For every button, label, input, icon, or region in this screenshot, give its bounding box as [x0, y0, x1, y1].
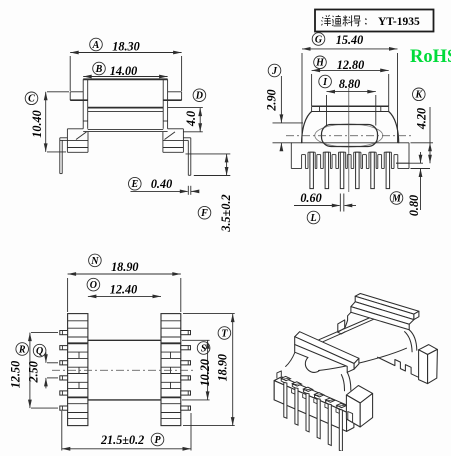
svg-text:14.00: 14.00	[110, 64, 137, 78]
dim C 10.40	[25, 92, 69, 152]
svg-text:4.0: 4.0	[184, 111, 198, 127]
front view: bobbin outline	[67, 79, 183, 152]
char 洋	[321, 17, 323, 25]
svg-text:0.40: 0.40	[151, 177, 172, 191]
svg-text:18.30: 18.30	[112, 40, 139, 54]
svg-text:2.50: 2.50	[27, 361, 41, 383]
dim T 18.90	[183, 314, 235, 426]
svg-text:RoHS: RoHS	[410, 47, 451, 67]
side view: bobbin flange profile	[302, 106, 399, 142]
title box	[315, 10, 434, 32]
fullwidth colon	[365, 19, 366, 25]
dim I 8.80	[319, 75, 376, 125]
svg-text:Q: Q	[36, 346, 43, 357]
svg-text:J: J	[271, 66, 278, 77]
svg-text:12.80: 12.80	[337, 58, 364, 72]
front view left pin	[60, 138, 68, 174]
svg-text:0.60: 0.60	[300, 191, 321, 205]
svg-text:18.90: 18.90	[216, 354, 230, 381]
svg-text:E: E	[130, 179, 138, 190]
svg-text:A: A	[92, 40, 100, 51]
3D far flange left edge and tab	[338, 312, 351, 334]
svg-text:10.40: 10.40	[30, 110, 44, 137]
side view pins	[310, 152, 314, 188]
3D far base crenellated wall	[378, 357, 419, 377]
dim H 12.80	[312, 56, 389, 106]
dim P 21.5±0.2	[62, 411, 191, 451]
svg-text:12.40: 12.40	[110, 283, 137, 297]
svg-text:15.40: 15.40	[336, 33, 363, 47]
dim N 18.90	[68, 254, 181, 312]
dim J 2.90	[265, 64, 304, 151]
svg-text:M: M	[391, 193, 402, 204]
svg-text:10.20: 10.20	[198, 359, 212, 386]
3D winding tube	[319, 318, 407, 371]
svg-text:4.20: 4.20	[414, 108, 428, 130]
dim F 3.5±0.2	[186, 154, 234, 233]
svg-text:L: L	[309, 213, 316, 224]
dim R 12.50	[9, 333, 59, 409]
3D isometric bobbin: far flange hat	[351, 294, 419, 330]
svg-text:0.80: 0.80	[407, 195, 421, 216]
svg-text:12.50: 12.50	[9, 361, 23, 388]
dim D 4.0	[168, 89, 206, 132]
svg-text:B: B	[95, 64, 103, 75]
svg-text:K: K	[414, 90, 423, 101]
dim E 0.40	[129, 177, 200, 195]
dim A 18.30	[70, 38, 181, 91]
top view body lines	[88, 340, 161, 400]
svg-text:C: C	[28, 94, 35, 105]
svg-text:18.90: 18.90	[111, 260, 138, 274]
svg-text:F: F	[200, 208, 208, 219]
dim M 0.80	[390, 152, 430, 216]
3D corner post block	[346, 386, 372, 428]
side view core hole stadium	[315, 124, 383, 147]
side view centerlines	[286, 88, 412, 192]
svg-text:21.5±0.2: 21.5±0.2	[100, 433, 144, 447]
svg-text:D: D	[195, 91, 203, 102]
svg-text:H: H	[315, 58, 325, 69]
svg-text:P: P	[154, 435, 161, 446]
3D far right base box	[419, 345, 438, 384]
svg-text:R: R	[18, 344, 26, 355]
svg-text:8.80: 8.80	[339, 77, 360, 91]
svg-text:3.5±0.2: 3.5±0.2	[219, 194, 233, 232]
top view left pins	[60, 331, 68, 335]
dim O 12.40	[87, 278, 161, 298]
dim G 15.40	[302, 33, 398, 143]
dim L 0.60	[294, 191, 356, 224]
char 号	[354, 16, 361, 26]
char 料	[343, 15, 348, 26]
3D near base deck	[274, 371, 354, 432]
svg-text:S: S	[201, 343, 207, 354]
side view base with pin comb	[291, 143, 409, 169]
3D near flange ledge and tube-end arc	[286, 345, 320, 373]
top view: flange strips	[68, 314, 181, 426]
svg-text:2.90: 2.90	[265, 89, 279, 111]
dim K 4.20	[411, 88, 434, 163]
svg-text:T: T	[221, 328, 228, 339]
svg-text:YT-1935: YT-1935	[378, 16, 420, 28]
dim S 10.20	[182, 340, 212, 400]
3D far flange right S-curves	[405, 330, 417, 352]
top view right pins	[181, 331, 191, 335]
3D pins	[281, 376, 290, 418]
3D near flange hat	[295, 332, 359, 373]
dim Q 2.50	[27, 344, 58, 388]
char 通	[332, 16, 341, 26]
front view right pin	[183, 138, 190, 176]
svg-text:N: N	[90, 256, 99, 267]
svg-text:G: G	[315, 34, 323, 45]
svg-text:O: O	[90, 280, 97, 291]
3D near flange right S-curves	[341, 372, 350, 391]
3D base slot notches	[292, 389, 295, 394]
dim B 14.00	[83, 62, 167, 78]
top view centerline	[52, 369, 196, 371]
